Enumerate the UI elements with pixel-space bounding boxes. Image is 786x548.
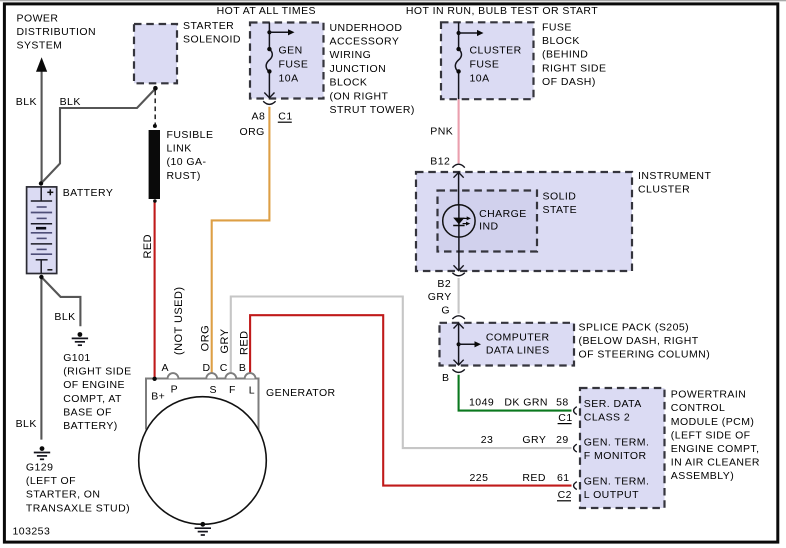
svg-text:PNK: PNK bbox=[430, 125, 453, 137]
svg-text:C2: C2 bbox=[558, 489, 572, 501]
svg-text:RED: RED bbox=[238, 330, 250, 355]
svg-text:A: A bbox=[162, 362, 169, 374]
svg-text:BATTERY: BATTERY bbox=[63, 187, 114, 199]
generator body circle bbox=[139, 397, 267, 525]
fuse GEN FUSE 10A box bbox=[250, 23, 324, 99]
LED triangle and cathode bar bbox=[453, 218, 464, 225]
svg-text:A8: A8 bbox=[252, 111, 266, 123]
svg-text:SPLICE PACK (S205): SPLICE PACK (S205) bbox=[579, 322, 690, 334]
powertrain control module PCM box bbox=[580, 388, 665, 508]
svg-text:OF ENGINE: OF ENGINE bbox=[63, 379, 125, 391]
svg-text:CHARGE: CHARGE bbox=[479, 208, 527, 220]
svg-text:GRY: GRY bbox=[522, 434, 546, 446]
svg-text:(10 GA-: (10 GA- bbox=[167, 156, 207, 168]
svg-text:GEN. TERM.: GEN. TERM. bbox=[584, 437, 650, 449]
svg-text:ORG: ORG bbox=[240, 126, 265, 138]
cluster fuse element bbox=[458, 22, 460, 48]
wire PNK cluster fuse to instrument cluster B12 bbox=[458, 99, 460, 163]
arrow to power distribution system bbox=[36, 57, 47, 72]
svg-text:B12: B12 bbox=[430, 155, 450, 167]
svg-text:HOT IN RUN, BULB TEST OR START: HOT IN RUN, BULB TEST OR START bbox=[406, 5, 598, 17]
svg-text:STARTER: STARTER bbox=[183, 20, 234, 32]
svg-text:MODULE (PCM): MODULE (PCM) bbox=[671, 416, 755, 428]
svg-text:D: D bbox=[203, 362, 211, 374]
connector arc G above splice pack bbox=[452, 316, 464, 319]
solid state inner box bbox=[438, 191, 538, 252]
svg-text:POWER: POWER bbox=[17, 13, 59, 25]
svg-text:(BEHIND: (BEHIND bbox=[542, 49, 588, 61]
gen fuse feed splice dot and arrow bbox=[267, 30, 271, 34]
generator terminal bump D bbox=[206, 373, 217, 378]
svg-text:23: 23 bbox=[481, 434, 494, 446]
cluster fuse feed splice dot and arrow bbox=[457, 31, 461, 35]
generator terminal bump C bbox=[225, 373, 236, 378]
svg-text:BATTERY): BATTERY) bbox=[63, 420, 118, 432]
svg-text:61: 61 bbox=[557, 472, 570, 484]
battery minus sign bbox=[47, 269, 52, 271]
svg-text:DISTRIBUTION: DISTRIBUTION bbox=[17, 26, 97, 38]
wire GRY instrument cluster B2 to splice pack G bbox=[458, 278, 460, 314]
connector arc B2 below instrument cluster bbox=[452, 273, 464, 276]
connector arc PCM pin 58 bbox=[574, 407, 577, 415]
svg-text:CLUSTER: CLUSTER bbox=[470, 44, 522, 56]
svg-text:BASE OF: BASE OF bbox=[63, 406, 112, 418]
svg-text:G129: G129 bbox=[26, 462, 54, 474]
svg-text:BLK: BLK bbox=[54, 311, 75, 323]
fusible link body bbox=[149, 130, 160, 199]
svg-text:B2: B2 bbox=[437, 278, 451, 290]
svg-text:CLASS 2: CLASS 2 bbox=[584, 412, 630, 424]
wire GRY generator F terminal to PCM pin 29 bbox=[231, 297, 572, 449]
svg-text:LINK: LINK bbox=[167, 143, 192, 155]
svg-text:225: 225 bbox=[470, 472, 489, 484]
svg-text:C1: C1 bbox=[278, 111, 292, 123]
wire BLK battery to ground G101 bbox=[41, 277, 80, 326]
battery plates bbox=[31, 200, 52, 202]
junction dot battery negative bbox=[39, 275, 43, 279]
svg-text:C1: C1 bbox=[558, 412, 572, 424]
svg-text:F MONITOR: F MONITOR bbox=[584, 450, 647, 462]
connector arc B below splice pack bbox=[452, 369, 464, 372]
svg-text:103253: 103253 bbox=[13, 526, 51, 538]
svg-text:COMPT, AT: COMPT, AT bbox=[63, 393, 122, 405]
svg-text:IND: IND bbox=[479, 221, 498, 233]
wire DK GRN splice pack B to PCM pin 58 bbox=[459, 375, 572, 411]
svg-text:G: G bbox=[441, 304, 450, 316]
generator terminal bump B bbox=[245, 373, 256, 378]
splice dot and arrow computer data lines bbox=[457, 342, 461, 346]
svg-text:P: P bbox=[171, 383, 178, 395]
svg-text:(LEFT OF: (LEFT OF bbox=[26, 475, 76, 487]
ground G129 bbox=[40, 446, 45, 451]
svg-text:29: 29 bbox=[556, 434, 569, 446]
arrow into instrument cluster bbox=[458, 174, 460, 206]
wire BLK to power distribution arrow bbox=[41, 71, 43, 184]
splice pack arrows bbox=[458, 324, 460, 365]
wire BLK battery to starter solenoid bbox=[41, 89, 156, 184]
gen fuse element bbox=[268, 23, 270, 49]
ground at generator case bbox=[200, 522, 205, 527]
junction dot at starter solenoid bottom bbox=[153, 86, 158, 91]
svg-text:POWERTRAIN: POWERTRAIN bbox=[671, 389, 746, 401]
svg-text:JUNCTION: JUNCTION bbox=[330, 63, 387, 75]
instrument cluster box bbox=[416, 172, 632, 271]
svg-text:(NOT USED): (NOT USED) bbox=[173, 287, 185, 355]
wire RED generator L terminal to PCM pin 61 bbox=[250, 315, 571, 485]
connector arc below gen fuse (A8 C1) bbox=[263, 101, 275, 104]
generator connector box with terminals bbox=[146, 379, 259, 430]
wire RED fusible link to generator B+ bbox=[154, 201, 156, 378]
svg-text:BLOCK: BLOCK bbox=[542, 35, 580, 47]
svg-text:WIRING: WIRING bbox=[330, 49, 372, 61]
connector arc B12 above instrument cluster bbox=[452, 164, 464, 167]
svg-text:DK GRN: DK GRN bbox=[504, 396, 548, 408]
starter solenoid box bbox=[134, 24, 177, 83]
ground G101 bbox=[78, 332, 83, 337]
svg-text:SOLENOID: SOLENOID bbox=[183, 34, 241, 46]
svg-text:UNDERHOOD: UNDERHOOD bbox=[330, 22, 403, 34]
svg-text:(RIGHT SIDE: (RIGHT SIDE bbox=[63, 366, 131, 378]
svg-text:(ON RIGHT: (ON RIGHT bbox=[330, 90, 389, 102]
battery BATTERY box bbox=[27, 187, 57, 274]
svg-text:L OUTPUT: L OUTPUT bbox=[584, 489, 639, 501]
wire ORG gen fuse to generator S terminal bbox=[212, 107, 270, 374]
svg-text:10A: 10A bbox=[279, 73, 299, 85]
svg-text:FUSE: FUSE bbox=[279, 58, 309, 70]
svg-text:RIGHT SIDE: RIGHT SIDE bbox=[542, 62, 606, 74]
svg-text:STARTER, ON: STARTER, ON bbox=[26, 489, 101, 501]
svg-text:STATE: STATE bbox=[543, 204, 578, 216]
svg-text:G101: G101 bbox=[63, 352, 90, 364]
generator terminal bump A bbox=[168, 373, 179, 378]
computer data lines box (splice pack S205) bbox=[440, 323, 575, 366]
svg-text:SOLID: SOLID bbox=[543, 191, 577, 203]
svg-text:1049: 1049 bbox=[469, 396, 494, 408]
battery plus sign bbox=[47, 191, 53, 193]
svg-text:BLK: BLK bbox=[16, 418, 37, 430]
svg-text:B+: B+ bbox=[151, 391, 165, 403]
svg-text:B: B bbox=[239, 362, 246, 374]
svg-text:BLK: BLK bbox=[60, 96, 81, 108]
svg-text:GEN: GEN bbox=[279, 44, 303, 56]
fuse CLUSTER FUSE 10A box bbox=[441, 22, 534, 99]
svg-text:CONTROL: CONTROL bbox=[671, 402, 726, 414]
svg-text:STRUT TOWER): STRUT TOWER) bbox=[330, 104, 415, 116]
wire BLK battery to ground G129 bbox=[40, 277, 42, 440]
gen fuse output arrow bbox=[264, 93, 274, 98]
page top gray strip bbox=[0, 0, 786, 1]
svg-text:58: 58 bbox=[556, 396, 569, 408]
svg-text:FUSE: FUSE bbox=[542, 22, 572, 34]
svg-text:HOT AT ALL TIMES: HOT AT ALL TIMES bbox=[217, 5, 316, 17]
svg-text:CLUSTER: CLUSTER bbox=[638, 184, 690, 196]
svg-text:OF STEERING COLUMN): OF STEERING COLUMN) bbox=[579, 349, 711, 361]
junction dot above fusible link bbox=[153, 124, 157, 128]
svg-text:OF DASH): OF DASH) bbox=[542, 76, 596, 88]
svg-text:ACCESSORY: ACCESSORY bbox=[330, 36, 400, 48]
svg-text:GRY: GRY bbox=[219, 328, 231, 353]
svg-text:ASSEMBLY): ASSEMBLY) bbox=[671, 470, 734, 482]
svg-text:COMPUTER: COMPUTER bbox=[486, 331, 550, 343]
svg-text:C: C bbox=[220, 362, 228, 374]
svg-text:GRY: GRY bbox=[428, 291, 452, 303]
svg-text:SER. DATA: SER. DATA bbox=[584, 398, 642, 410]
svg-text:ORG: ORG bbox=[200, 325, 212, 351]
svg-text:RED: RED bbox=[142, 234, 154, 259]
svg-text:IN AIR CLEANER: IN AIR CLEANER bbox=[671, 457, 760, 469]
svg-text:INSTRUMENT: INSTRUMENT bbox=[638, 170, 711, 182]
svg-text:SYSTEM: SYSTEM bbox=[17, 40, 63, 52]
LED light arrows bbox=[463, 217, 467, 219]
svg-text:GENERATOR: GENERATOR bbox=[266, 387, 336, 399]
svg-text:BLOCK: BLOCK bbox=[330, 77, 368, 89]
junction dot B+ red wire at generator bbox=[152, 377, 156, 381]
svg-text:S: S bbox=[210, 384, 217, 396]
svg-text:(LEFT SIDE OF: (LEFT SIDE OF bbox=[671, 429, 751, 441]
svg-text:FUSE: FUSE bbox=[470, 58, 500, 70]
svg-text:(BELOW DASH, RIGHT: (BELOW DASH, RIGHT bbox=[579, 335, 699, 347]
wire dashed starter solenoid to fusible link bbox=[154, 91, 156, 125]
charge indicator LED circle bbox=[443, 205, 475, 237]
junction dot battery positive bbox=[39, 181, 43, 185]
svg-text:F: F bbox=[229, 384, 236, 396]
svg-text:BLK: BLK bbox=[16, 96, 37, 108]
connector arc PCM pin 29 bbox=[574, 444, 577, 452]
svg-text:GEN. TERM.: GEN. TERM. bbox=[584, 475, 650, 487]
svg-text:L: L bbox=[249, 384, 255, 396]
svg-text:10A: 10A bbox=[470, 73, 490, 85]
svg-text:DATA LINES: DATA LINES bbox=[486, 344, 550, 356]
arrow out of instrument cluster bbox=[458, 237, 460, 270]
svg-text:ENGINE COMPT,: ENGINE COMPT, bbox=[671, 443, 760, 455]
svg-text:RED: RED bbox=[522, 472, 546, 484]
svg-text:B: B bbox=[442, 372, 449, 384]
junction dot below fusible link bbox=[153, 199, 157, 203]
connector arc PCM pin 61 bbox=[574, 482, 577, 490]
svg-text:TRANSAXLE STUD): TRANSAXLE STUD) bbox=[26, 502, 130, 514]
svg-text:RUST): RUST) bbox=[167, 170, 201, 182]
svg-text:FUSIBLE: FUSIBLE bbox=[167, 129, 214, 141]
